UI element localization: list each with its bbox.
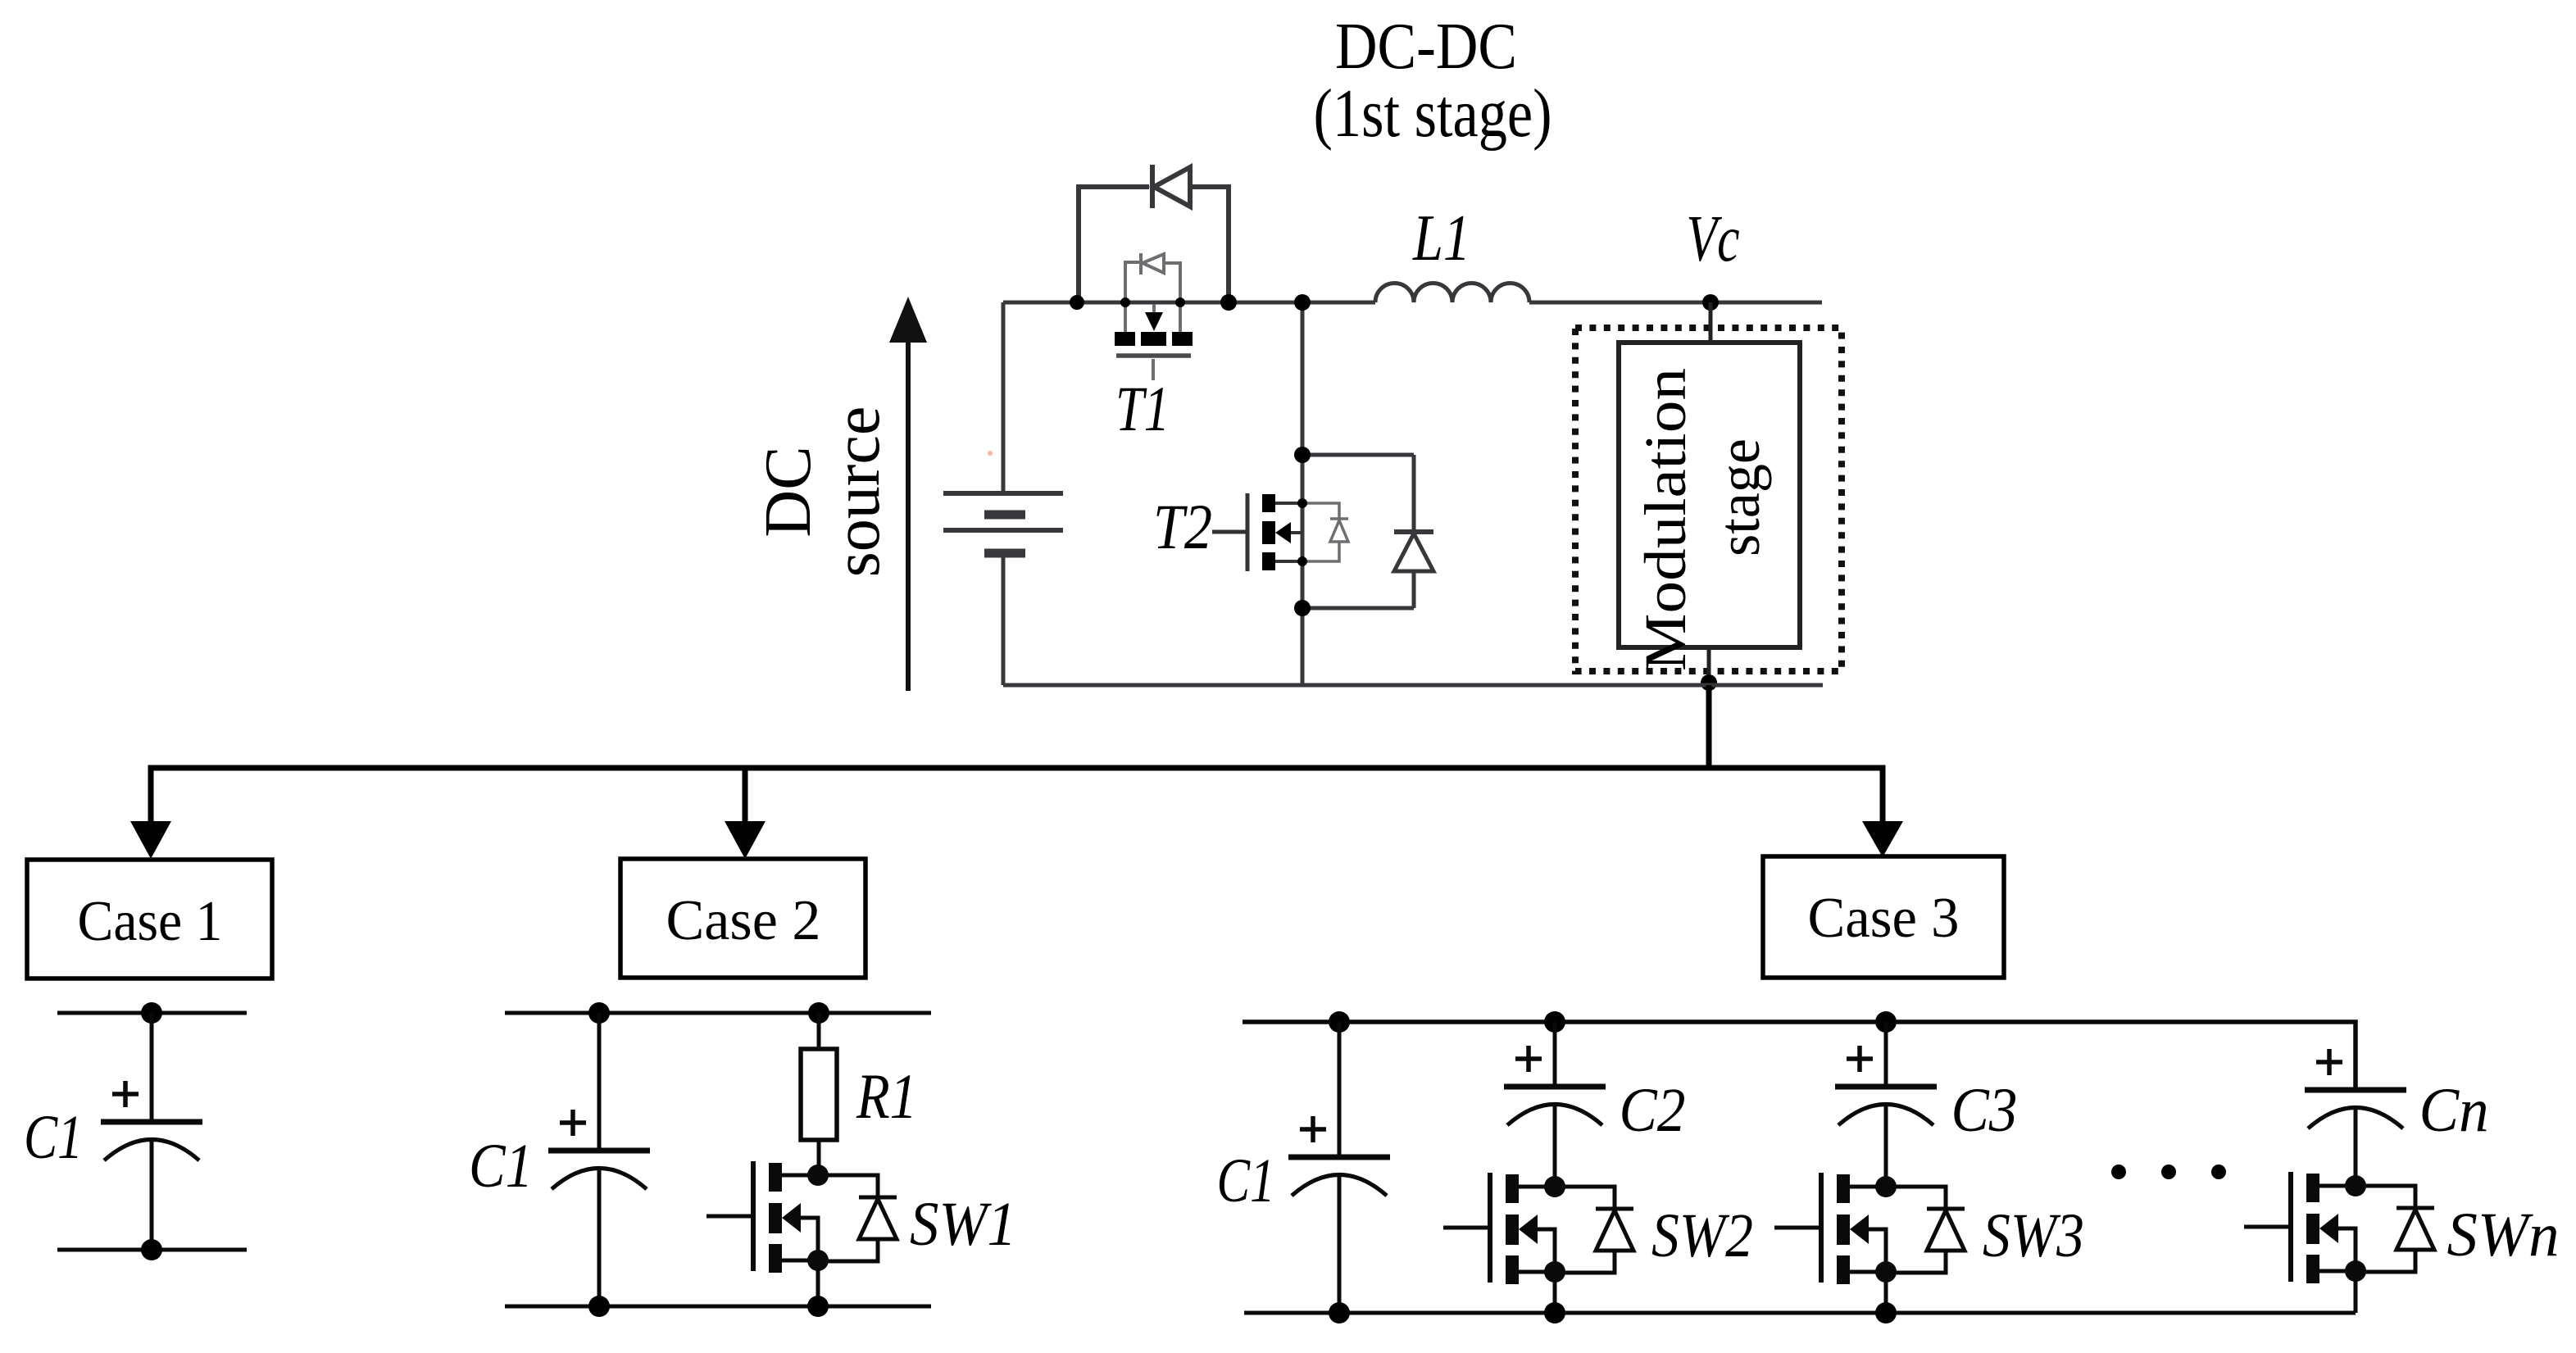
node rail-T2 [1294, 294, 1311, 311]
svg-text:Cn: Cn [2419, 1076, 2489, 1145]
wire bottom rail [1003, 683, 1823, 688]
svg-text:SW1: SW1 [910, 1190, 1016, 1259]
node case3 C1 bottom [1329, 1302, 1350, 1323]
modulation stage box [1619, 343, 1800, 647]
wire T2 branch vertical [1301, 302, 1305, 685]
node case1 top [141, 1002, 162, 1024]
svg-text:Case 1: Case 1 [78, 890, 223, 953]
svg-text:T1: T1 [1115, 373, 1170, 444]
transistor T2 [1212, 493, 1302, 571]
node case2 top-right [808, 1002, 829, 1024]
node T2 top [1294, 447, 1311, 463]
wire case3 bottom bus [1244, 1311, 2356, 1315]
svg-text:C1: C1 [469, 1132, 533, 1201]
wire D2 loop top [1302, 453, 1414, 457]
wire C3-SW3 [1884, 1105, 1888, 1187]
svg-text:SWn: SWn [2447, 1201, 2560, 1269]
svg-text:R1: R1 [856, 1060, 917, 1132]
wire modulation top stem [1709, 302, 1713, 343]
wire case2 R1 upper lead [817, 1013, 821, 1049]
svg-text:T2: T2 [1153, 491, 1212, 562]
svg-text:C3: C3 [1951, 1076, 2018, 1145]
wire SWn source lead [2354, 1271, 2358, 1313]
transistor SW2 [1443, 1173, 1633, 1284]
wire case3 top bus [1243, 1022, 2356, 1090]
inductor L1 [1375, 284, 1529, 303]
svg-text:stage: stage [1706, 438, 1772, 556]
transistor SWn [2244, 1172, 2434, 1283]
node case3 C1 top [1329, 1011, 1350, 1033]
stray red mark [988, 451, 993, 456]
svg-text:Case 2: Case 2 [666, 889, 821, 952]
wire case3 C1 lower lead [1338, 1175, 1342, 1313]
capacitor C1 (case3) [1288, 1116, 1390, 1196]
node case1 bottom [141, 1239, 162, 1260]
node T2 source [1297, 556, 1307, 566]
battery DC source [943, 302, 1063, 685]
node case3 SW3 bottom [1875, 1302, 1897, 1323]
arrow into case1 [130, 821, 171, 859]
wire case1 top [57, 1011, 247, 1015]
box Case 3 [1763, 856, 2004, 978]
svg-text:DC: DC [752, 446, 825, 537]
wire top rail right segment [1529, 301, 1822, 305]
wire top rail left segment [1003, 301, 1375, 305]
svg-text:SW2: SW2 [1651, 1201, 1753, 1270]
transistor SW3 [1774, 1173, 1965, 1284]
diode D2 [1394, 455, 1433, 608]
wire case2 C1 lower lead [597, 1168, 602, 1306]
wire case1 cap upper lead [150, 1013, 154, 1122]
box Case 2 [620, 859, 865, 978]
svg-text:Modulation: Modulation [1633, 368, 1698, 671]
transistor SW1 [706, 1161, 897, 1273]
capacitor Cn [2305, 1049, 2406, 1128]
transistor T1 [1125, 253, 1180, 380]
wire case3 C1 upper lead [1338, 1022, 1342, 1157]
node rail-T1 left [1120, 297, 1130, 307]
svg-text:DC-DC: DC-DC [1335, 9, 1517, 83]
node case2 bottom-right [807, 1296, 829, 1317]
wire case2 drop [743, 768, 748, 823]
wire case2 C1 upper lead [597, 1013, 602, 1151]
modulation stage dotted box [1575, 328, 1842, 671]
wire modulation bottom stem [1707, 647, 1711, 685]
wire distribution bus [151, 768, 1883, 823]
wire SW1 source lead [816, 1260, 820, 1306]
capacitor C1 (case1) [101, 1081, 202, 1160]
node case3 C2 top [1544, 1011, 1565, 1033]
wire case3 C3 upper lead [1884, 1022, 1888, 1087]
node case3 C3 top [1875, 1011, 1897, 1033]
arrow into case2 [725, 821, 766, 859]
diode D1 bypass loop [1079, 165, 1229, 302]
ellipsis more branches [2111, 1165, 2126, 1179]
svg-text:source: source [821, 406, 893, 578]
arrow into case3 [1862, 821, 1903, 857]
node rail-D1 right [1220, 294, 1237, 311]
wire C2-SW2 [1553, 1105, 1557, 1187]
svg-text:L1: L1 [1412, 202, 1470, 275]
svg-text:C1: C1 [24, 1103, 83, 1172]
node case2 top-left [588, 1002, 610, 1024]
wire case1 bottom [57, 1248, 247, 1252]
wire case1 cap lower lead [150, 1139, 154, 1250]
capacitor C3 [1835, 1046, 1937, 1125]
wire SW3 source lead [1884, 1272, 1888, 1313]
wire output drop [1706, 685, 1712, 770]
node case3 SW2 bottom [1544, 1302, 1565, 1323]
arrow DC source direction [906, 339, 911, 691]
node rail-T1 right [1175, 297, 1185, 307]
node T2 drain [1297, 498, 1307, 508]
wire case2 top [505, 1011, 931, 1015]
svg-text:Vc: Vc [1687, 203, 1740, 275]
box Case 1 [27, 860, 272, 978]
svg-text:C2: C2 [1620, 1076, 1686, 1145]
capacitor C1 (case2) [548, 1110, 650, 1189]
svg-text:Case 3: Case 3 [1808, 887, 1960, 950]
resistor R1 [801, 1049, 837, 1140]
wire Cn-SWn [2354, 1108, 2358, 1186]
wire case3 C2 upper lead [1553, 1022, 1557, 1087]
wire SW2 source lead [1553, 1272, 1557, 1313]
wire D2 loop bottom [1302, 606, 1414, 611]
wire case2 bottom [505, 1305, 931, 1309]
node case2 bottom-left [588, 1296, 610, 1317]
node T2 bottom [1294, 600, 1311, 616]
node modulation output [1701, 674, 1717, 691]
svg-text:(1st stage): (1st stage) [1314, 75, 1552, 152]
node Vc [1702, 294, 1719, 311]
capacitor C2 [1504, 1046, 1606, 1125]
wire R1-SW1 [817, 1140, 821, 1175]
node rail-D1 left [1070, 295, 1084, 310]
svg-text:C1: C1 [1217, 1146, 1275, 1215]
svg-text:SW3: SW3 [1983, 1201, 2084, 1270]
